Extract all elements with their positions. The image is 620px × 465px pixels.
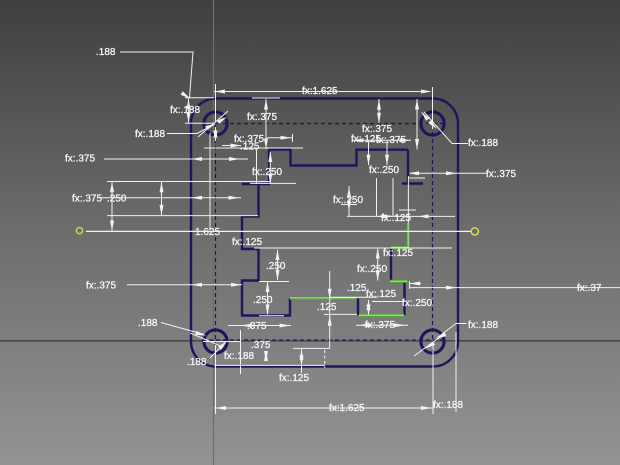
.188 BL leader [210,342,226,358]
.188 BL label leader [161,323,204,335]
top edge finger left [269,150,408,166]
svg-text:.125: .125 [240,142,260,153]
green bottom line 2 [359,314,404,317]
arrowheads [110,90,457,411]
svg-text:fx:.375: fx:.375 [86,281,116,292]
hole top-left [204,112,227,135]
left stack line c [107,215,258,217]
white dimension graphics [86,52,620,414]
fx:.375 bottom right dim [356,324,408,326]
svg-text:fx:.125: fx:.125 [366,289,396,300]
svg-text:.125: .125 [317,302,337,313]
inner profile navy segments [242,150,423,316]
small arrows top cluster [368,141,370,165]
left ext vertical x210 [209,133,211,230]
svg-text:fx:.125: fx:.125 [232,237,262,248]
horizontal sketch axis [0,340,620,342]
fx:.188 BR leader [438,324,467,338]
bottom right dark vertical [403,281,405,315]
TR hole leader [424,112,468,144]
fx:.125 right dim line [347,215,455,217]
svg-text:fx:.375: fx:.375 [247,112,277,123]
svg-text:fx:.125: fx:.125 [279,373,309,384]
svg-text:fx:.250: fx:.250 [252,167,282,178]
svg-text:fx:.188: fx:.188 [135,129,165,140]
fx:.375 right dim [410,172,487,174]
centerline top holes [202,123,446,125]
BR hole diagonal [414,336,442,357]
fx:.375 left lower dim line [127,284,242,286]
green line right upper [391,246,408,249]
ext right of slot [409,177,425,179]
plate outline [191,99,458,367]
yellow endpoint right [471,228,478,235]
hole top-right [421,112,444,135]
svg-text:fx:.188: fx:.188 [224,351,254,362]
svg-text:fx:.188: fx:.188 [468,138,498,149]
right vertical [407,150,409,184]
left stack line b [99,197,241,199]
sketch line 1.625 [86,230,471,232]
svg-text:.250: .250 [253,295,273,306]
svg-text:.375: .375 [247,321,267,332]
left stack line a [107,181,270,183]
fx:.375 top right vertical dim [416,99,418,150]
fx:.188 TL vertical dim [188,99,190,123]
svg-text:fx:.375: fx:.375 [72,194,102,205]
right lower dark vertical [390,248,392,281]
green highlighted segments [290,223,408,315]
yellow endpoint left [76,228,82,234]
left stack vertical [161,182,163,215]
fx:.188 bottom ext [455,332,457,412]
fx:.125 right small arrow line [410,283,422,285]
vertical sketch axis [213,0,215,465]
green bottom line 1 [290,297,357,300]
hole bottom-left [204,330,227,353]
svg-text:.125: .125 [347,283,367,294]
hole bottom-right [421,330,444,353]
fx:.125 top dim line [267,137,292,139]
fx:.188 TL leader [167,125,214,134]
svg-text:.250: .250 [266,261,286,272]
.375 bottom-left dim [228,325,291,327]
svg-text:fx:.250: fx:.250 [357,264,387,275]
svg-text:fx:1.625: fx:1.625 [302,86,338,97]
svg-text:fx:.125: fx:.125 [381,213,411,224]
svg-text:fx:.37: fx:.37 [577,283,602,294]
left finger step 1 [242,184,290,316]
fx:.375 vertical dim x379 [378,99,380,123]
TL hole diagonal [198,111,228,137]
svg-text:fx:.375: fx:.375 [65,154,95,165]
svg-text:.250: .250 [107,194,127,205]
right jog horizontal [402,182,423,184]
centerline right holes [432,111,434,354]
.250 dim upper-left [277,250,279,280]
centerline bottom holes [202,339,446,341]
fx:.375 top-left vertical dim [265,99,267,149]
green vertical right [407,223,410,248]
.250 dim lower-left [267,282,269,315]
green short line right [390,280,407,283]
fx:.188 bottom small dim [265,351,267,361]
top fx:1.625 dimension line [214,91,430,93]
svg-text:fx:.188: fx:.188 [433,400,463,411]
fx:.125 bottom dashed ext [324,350,326,368]
svg-text:.375: .375 [251,340,271,351]
svg-text:fx:.375: fx:.375 [486,169,516,180]
left upper vertical .250 [242,150,269,185]
svg-text:fx:.125: fx:.125 [383,248,413,259]
svg-text:fx:.250: fx:.250 [333,195,363,206]
svg-text:1.625: 1.625 [195,227,220,238]
TL hole small vertical arrow [215,127,217,141]
green light cores [290,223,408,315]
fx:.250 bottom right dim [368,300,370,315]
.188 label leader [120,52,193,98]
svg-text:.188: .188 [96,47,116,58]
svg-text:.188: .188 [138,318,158,329]
svg-text:fx:.250: fx:.250 [369,165,399,176]
BL hole diagonal [190,333,223,347]
svg-text:fx:.375: fx:.375 [365,320,395,331]
svg-text:fx:1.625: fx:1.625 [329,403,365,414]
bottom middle dark vertical [357,299,359,316]
fx:.375 left dim line [104,158,248,160]
svg-text:fx:.375: fx:.375 [376,135,406,146]
top right cluster dim line [352,139,411,141]
svg-text:fx:.188: fx:.188 [170,105,200,116]
centerline left holes [215,111,217,354]
svg-text:.188: .188 [187,357,207,368]
.125 middle dim vertical [329,271,331,349]
fx:.375 far right dim [410,287,620,289]
svg-text:fx:.188: fx:.188 [468,320,498,331]
bottom fx:1.625 dim [214,407,433,409]
fx:.250 mid dim [348,186,350,216]
fx:.250 right vertical dim [377,249,379,281]
svg-text:fx:.250: fx:.250 [402,298,432,309]
fx:.250 left vertical dim [269,152,271,183]
